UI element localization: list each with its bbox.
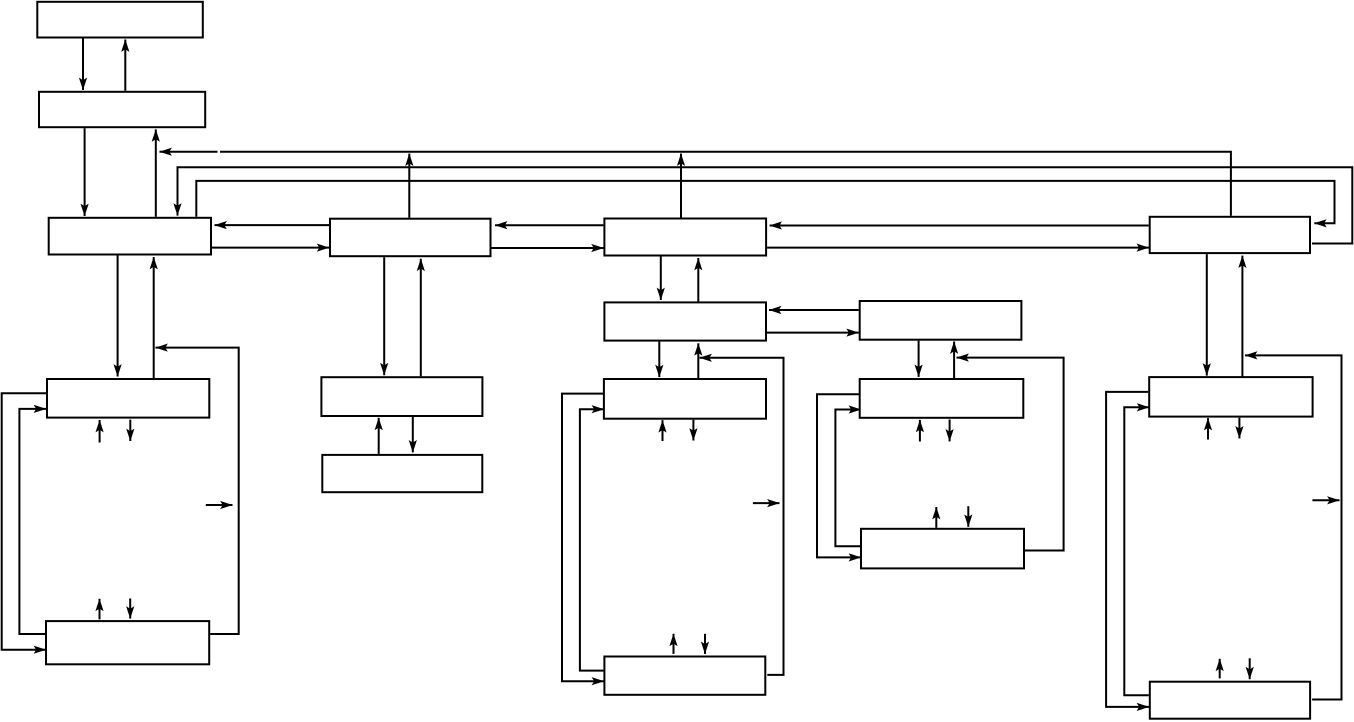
arrow B6 down to R1 (1206, 254, 1208, 376)
arrow B1 down to B2 (82, 39, 84, 91)
arrow B8 down to N1 (918, 341, 920, 377)
arrow L-group floating stub to right loop (206, 504, 233, 506)
arrow stub up below M3 (662, 420, 664, 441)
block L1 (47, 379, 209, 418)
block N2 (861, 529, 1024, 569)
arrow B7 right to B8 (767, 332, 859, 334)
arrow stub up above R2 (1219, 659, 1221, 679)
arrow stub down below L1 (129, 420, 131, 441)
wire long feedback line2 from block B6 right around to block B3 top (178, 167, 1353, 243)
arrow M-group floating stub to right loop (753, 502, 780, 504)
block M3 (604, 379, 766, 419)
wire N-group right loop from N2 to N1 up-line (957, 358, 1064, 551)
wire gap artifact on line1 (218, 149, 221, 154)
block R2 (1150, 682, 1310, 719)
arrow stub down above L2 (129, 599, 131, 619)
arrow B3 up to B2 (155, 129, 157, 216)
block N1 (860, 379, 1024, 418)
arrow stub down above N2 (967, 506, 969, 527)
arrow B7 down to M3 (658, 342, 660, 378)
arrow B2 down to B3 (84, 128, 86, 216)
arrow stub up above L2 (99, 599, 101, 620)
block B7 (604, 302, 766, 340)
wire long feedback line1 from block B6 top to bus line of B3-B2 (160, 152, 1231, 216)
wire R-group left outer loop from R1 to R2 (1106, 392, 1149, 707)
wire M-group left inner loop from M4 to M3 (580, 409, 604, 670)
block B2 (39, 92, 205, 127)
arrow stub down below M3 (692, 420, 694, 441)
arrow stub down below R1 (1238, 418, 1240, 439)
arrow stub up above N2 (935, 507, 937, 528)
block B5 (604, 219, 766, 256)
block L2 (46, 621, 209, 664)
arrow B5 left to B4 (495, 224, 603, 226)
arrow stub down below N1 (949, 420, 951, 442)
arrow R-group floating stub to right loop (1312, 499, 1339, 501)
block B8 (860, 301, 1022, 340)
block R1 (1149, 377, 1312, 417)
arrow stub down above R2 (1249, 658, 1251, 679)
arrow stub up above M4 (673, 634, 675, 654)
arrow B5 down to B7 (660, 257, 662, 301)
block B1 (37, 2, 203, 38)
wire R-group left inner loop from R2 to R1 (1124, 407, 1149, 695)
arrow B5 right to B6 (767, 247, 1149, 249)
wire L-group right loop from L2 to L1 up-line (156, 348, 239, 634)
arrow B8 left to B7 (769, 309, 859, 311)
arrow B2 up to B1 (124, 40, 126, 91)
wire L-group left inner loop from L2 to L1 (19, 409, 46, 634)
arrow B4 top up to line1 (408, 154, 410, 218)
arrow L1 up to B3 (153, 257, 155, 378)
arrow B4 right to B5 (492, 247, 604, 249)
block M2 (322, 455, 482, 492)
arrow B5 top up to line1 (680, 154, 682, 218)
block B4 (330, 219, 491, 257)
arrow B6 left to B5 (770, 225, 1149, 227)
wire L-group left outer loop from L1 to L2 (2, 393, 46, 649)
wire long feedback line3 from block B3 top around to block B6 right (196, 181, 1334, 223)
wire M-group left outer loop from M3 to M4 (562, 394, 604, 682)
arrow N1 up to B8 (953, 342, 955, 379)
arrow B7 up to B5 (697, 258, 699, 301)
wire N-group left outer loop from N1 to N2 (817, 394, 861, 557)
arrow M1 down to M2 (412, 417, 414, 452)
block B6 (1150, 217, 1310, 253)
block B3 (49, 218, 211, 255)
arrow B4 down to M1 (383, 257, 385, 375)
arrow B3 right to B4 (212, 247, 329, 249)
arrow stub up below R1 (1207, 418, 1209, 439)
arrow stub down above M4 (704, 634, 706, 654)
block M4 (604, 657, 765, 695)
arrow stub up below L1 (99, 420, 101, 443)
arrow M1 up to B4 (420, 259, 422, 377)
block M1 (321, 377, 482, 416)
wire R-group right loop from R2 to R1 up-line (1245, 355, 1342, 699)
arrow M2 up to M1 (378, 418, 380, 454)
arrow B4 left to B3 (215, 224, 330, 226)
wire N-group left inner loop from N2 to N1 (835, 410, 861, 547)
arrow stub up below N1 (919, 420, 921, 442)
wire M-group right loop from M4 to M3 up-line (700, 358, 784, 675)
arrow R1 up to B6 (1241, 256, 1243, 378)
arrow M3 up to B7 (697, 343, 699, 378)
arrow B3 down to L1 (117, 256, 119, 377)
